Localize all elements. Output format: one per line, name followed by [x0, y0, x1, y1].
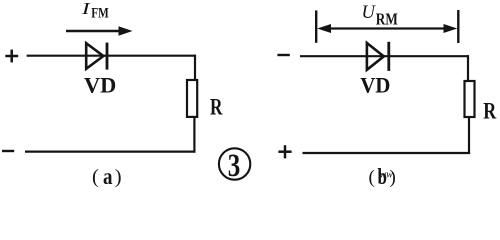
svg-text:3: 3 [228, 148, 241, 184]
svg-text:R: R [483, 99, 496, 124]
measurement tick right [457, 10, 459, 43]
label U RM [362, 3, 399, 29]
svg-text:RM: RM [376, 10, 398, 29]
terminal plus of circuit b [278, 145, 291, 158]
wire right vertical lower circuit b [468, 117, 470, 154]
resistor R circuit b [465, 81, 475, 117]
svg-text:VD: VD [84, 73, 116, 98]
diode VD circuit a [86, 43, 107, 70]
wire bottom horizontal circuit a [25, 151, 196, 153]
svg-text:FM: FM [91, 6, 109, 22]
terminal minus of circuit a [2, 150, 14, 152]
wire top horizontal circuit b [300, 55, 469, 57]
svg-text:ww: ww [380, 170, 394, 181]
terminal plus of circuit a [5, 50, 18, 63]
svg-text:(: ( [369, 167, 375, 188]
label I FM [80, 0, 109, 22]
wire bottom horizontal circuit b [303, 152, 471, 154]
svg-text:(: ( [92, 166, 99, 188]
wire right vertical lower circuit a [193, 117, 195, 153]
svg-text:VD: VD [360, 73, 390, 98]
svg-text:a: a [103, 164, 113, 188]
wire right vertical upper circuit b [467, 55, 469, 81]
voltage arrow URM double headed [317, 24, 457, 33]
figure number 3 circled [219, 148, 250, 184]
diode VD circuit b [367, 42, 389, 71]
svg-text:U: U [362, 3, 377, 23]
terminal minus of circuit b [277, 54, 289, 56]
wire top horizontal circuit a [27, 55, 196, 57]
caption (b) with faint watermark [369, 164, 396, 189]
caption (a) [92, 164, 122, 189]
measurement tick left [315, 10, 317, 42]
svg-text:R: R [210, 95, 223, 120]
wire right vertical upper circuit a [194, 55, 196, 81]
current arrow IFM [66, 26, 133, 35]
svg-text:): ) [115, 166, 122, 188]
resistor R circuit a [187, 80, 197, 117]
